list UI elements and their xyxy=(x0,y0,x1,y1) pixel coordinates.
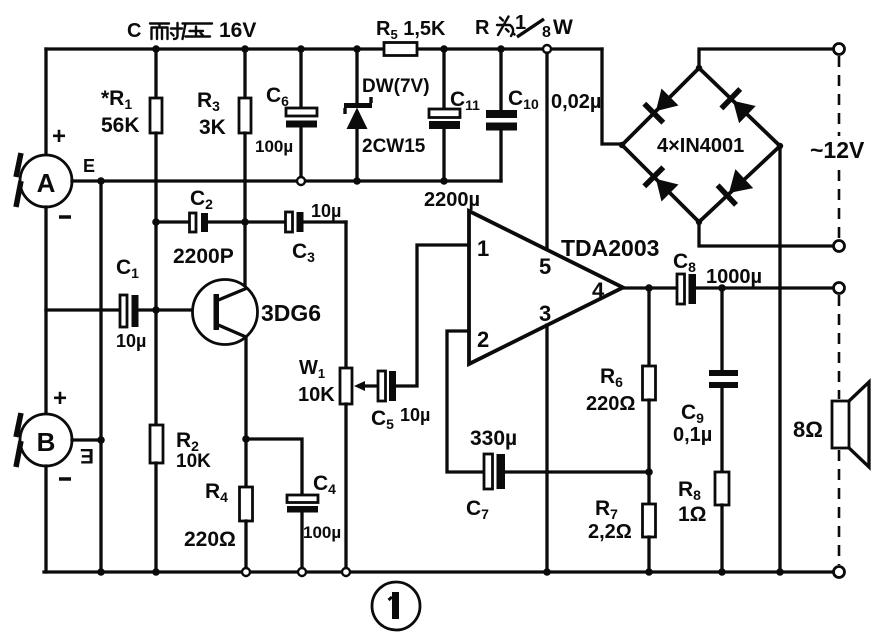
wire bridge negative vertical xyxy=(778,146,781,572)
wire output pin 4 xyxy=(623,286,677,289)
diode D3 (top-right arm) xyxy=(733,101,756,124)
zener diode DW 2CW15 xyxy=(355,49,358,104)
svg-text:220Ω: 220Ω xyxy=(184,528,236,551)
capacitor C8 xyxy=(677,274,685,304)
node bridge right vertex xyxy=(777,143,783,149)
resistor R7 xyxy=(647,472,650,504)
terminal AC top xyxy=(834,44,845,55)
resistor R1 xyxy=(154,49,157,98)
capacitor C4 xyxy=(246,439,302,495)
resistor R6 xyxy=(647,288,650,366)
diode D4 (bottom-right arm) xyxy=(729,169,753,193)
capacitor C10 xyxy=(499,49,502,111)
resistor R2 xyxy=(154,310,157,425)
svg-text:10K: 10K xyxy=(176,451,211,472)
svg-text:2,2Ω: 2,2Ω xyxy=(588,521,632,543)
potentiometer W1 xyxy=(344,222,347,368)
svg-text:E: E xyxy=(83,156,95,176)
capacitor C3 xyxy=(245,220,285,223)
op-amp U1 TDA2003 xyxy=(469,211,623,364)
transistor Q1 3DG6 xyxy=(156,308,214,311)
capacitor C5 xyxy=(378,371,386,401)
svg-text:10K: 10K xyxy=(298,384,335,406)
microphone A xyxy=(20,155,72,207)
bridge rectifier 4xIN4001 diamond xyxy=(622,68,780,222)
wire dashed AC span xyxy=(838,56,841,239)
node ground vertical to bottom rail xyxy=(97,568,105,576)
wire pin 3 to ground rail xyxy=(545,325,548,572)
node mic A E junction xyxy=(97,177,105,185)
svg-text:4: 4 xyxy=(592,278,605,303)
wire top rail corner down to bridge DC+ xyxy=(602,49,622,144)
svg-text:2200P: 2200P xyxy=(173,245,234,268)
wire mic A bottom to mic B top xyxy=(44,207,47,414)
label ~12V xyxy=(808,136,878,164)
mic B sound bars xyxy=(16,413,21,467)
label - (mic A) xyxy=(59,215,71,219)
svg-text:TDA2003: TDA2003 xyxy=(561,235,659,261)
diode D2 (bottom-left arm) xyxy=(656,179,679,202)
svg-text:W: W xyxy=(553,16,573,39)
svg-text:3DG6: 3DG6 xyxy=(261,300,321,326)
svg-text:1: 1 xyxy=(477,236,489,261)
svg-text:A: A xyxy=(37,168,56,198)
diode D1 (top-left arm) xyxy=(656,89,679,112)
svg-text:220Ω: 220Ω xyxy=(586,393,635,415)
svg-text:5: 5 xyxy=(539,254,551,279)
terminal ground xyxy=(834,567,845,578)
wire mic B output to ground vertical xyxy=(72,438,101,441)
wire left vertical from rail to mic A xyxy=(44,49,47,155)
svg-text:R5 1,5K: R5 1,5K xyxy=(376,18,446,42)
node base junction xyxy=(152,306,160,314)
wire mic B bottom to ground rail xyxy=(44,466,47,572)
svg-text:0,1µ: 0,1µ xyxy=(673,424,712,446)
node output/R6 junction xyxy=(645,284,653,292)
svg-text:8: 8 xyxy=(542,24,551,41)
svg-text:0,02µ: 0,02µ xyxy=(551,91,601,113)
wire ground vertical (mic E bus to bottom rail) xyxy=(99,181,102,572)
svg-text:E: E xyxy=(80,444,94,467)
svg-text:R: R xyxy=(475,17,490,39)
node mic B E junction xyxy=(97,436,105,444)
svg-text:+: + xyxy=(52,123,66,150)
svg-text:1Ω: 1Ω xyxy=(678,503,707,526)
svg-text:10µ: 10µ xyxy=(116,331,146,351)
capacitor C1 xyxy=(46,308,120,311)
svg-text:3K: 3K xyxy=(199,116,226,139)
svg-text:4×IN4001: 4×IN4001 xyxy=(657,135,744,157)
terminal output xyxy=(834,283,845,294)
svg-text:10µ: 10µ xyxy=(311,201,341,221)
speaker 8 ohm xyxy=(832,401,849,448)
node bridge top vertex xyxy=(696,65,702,71)
svg-text:100µ: 100µ xyxy=(303,523,341,542)
node emitter/C4 junction xyxy=(242,435,250,443)
svg-text:C: C xyxy=(127,20,141,42)
node bridge left vertex xyxy=(619,142,625,148)
node collector/C2 junction xyxy=(241,218,249,226)
wire bridge top AC xyxy=(699,49,834,68)
microphone B xyxy=(20,414,72,466)
resistor R8 xyxy=(715,472,729,505)
wire pin 2 net xyxy=(447,331,484,472)
svg-text:10µ: 10µ xyxy=(400,405,430,425)
resistor R4 xyxy=(240,487,253,521)
svg-text:100µ: 100µ xyxy=(255,137,293,156)
svg-text:3: 3 xyxy=(539,301,551,326)
terminal AC bottom xyxy=(834,241,845,252)
capacitor C9 xyxy=(720,288,723,371)
mic A sound bars xyxy=(16,153,21,207)
wire dashed output to speaker xyxy=(838,295,841,399)
node bridge bottom vertex xyxy=(696,219,702,225)
wire upper ground bus (mic A E to C10) xyxy=(72,179,501,182)
wiper arrow into W1 xyxy=(363,384,378,387)
svg-text:B: B xyxy=(37,427,56,457)
node C7/R6/R7 junction xyxy=(645,468,653,476)
svg-text:2200µ: 2200µ xyxy=(424,189,480,211)
svg-text:~12V: ~12V xyxy=(810,137,865,163)
svg-text:2CW15: 2CW15 xyxy=(362,136,426,157)
wire bridge bottom AC xyxy=(699,222,834,246)
wire emitter down xyxy=(244,337,247,487)
label - (mic B) xyxy=(59,477,71,481)
resistor R3 xyxy=(243,49,246,98)
svg-text:8Ω: 8Ω xyxy=(793,417,823,442)
figure number 1 xyxy=(372,582,420,630)
svg-text:DW(7V): DW(7V) xyxy=(362,76,430,97)
svg-text:56K: 56K xyxy=(101,114,140,137)
svg-text:1000µ: 1000µ xyxy=(706,266,762,288)
svg-text:16V: 16V xyxy=(219,19,256,42)
capacitor C6 xyxy=(299,49,302,109)
wire bottom ground rail xyxy=(44,570,834,573)
node output/C9 junction xyxy=(718,284,726,292)
wire dashed speaker to ground terminal xyxy=(838,450,841,565)
capacitor C2 xyxy=(156,220,190,223)
svg-text:330µ: 330µ xyxy=(470,427,517,450)
wire top supply rail xyxy=(46,47,602,50)
svg-text:2: 2 xyxy=(477,327,489,352)
capacitor C11 xyxy=(442,49,445,110)
wire C5 to pin 1 xyxy=(396,245,469,386)
wire pin5 supply feed xyxy=(543,45,551,53)
node R1/C2 junction xyxy=(152,218,160,226)
capacitor C7 xyxy=(484,454,493,489)
svg-text:+: + xyxy=(53,385,67,412)
resistor R5 (in rail) xyxy=(384,43,417,56)
